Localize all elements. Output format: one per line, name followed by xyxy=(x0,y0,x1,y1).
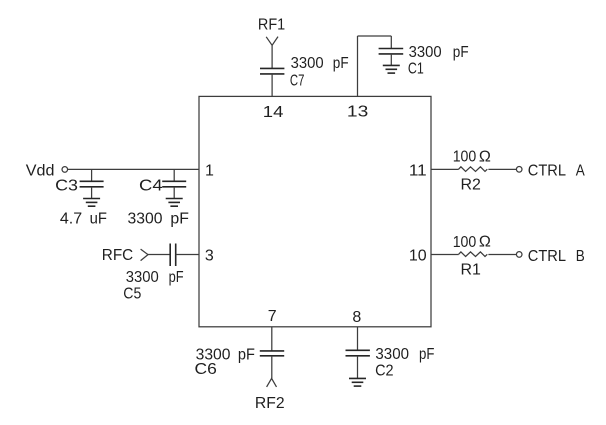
wire C5 to pin 3 xyxy=(176,254,199,256)
svg-text:pF: pF xyxy=(419,346,435,363)
port RF2 arrowhead xyxy=(267,378,277,387)
wire stub C3 xyxy=(91,169,93,181)
wire stub C4 xyxy=(173,169,175,181)
svg-text:Ω: Ω xyxy=(479,149,491,166)
value label 100 ohm (R1) xyxy=(453,234,491,251)
svg-text:C6: C6 xyxy=(195,361,217,378)
resistor R1 xyxy=(459,252,488,257)
value label 3300 pF (C5) xyxy=(126,269,184,286)
svg-text:100: 100 xyxy=(453,234,477,251)
wire pin 13 up xyxy=(357,36,359,96)
svg-text:RF2: RF2 xyxy=(255,395,285,412)
wire C3 to ground xyxy=(91,187,93,199)
IC U1 body xyxy=(199,96,431,326)
svg-text:pF: pF xyxy=(169,269,184,286)
ground (C3) xyxy=(83,199,100,207)
svg-text:CTRL: CTRL xyxy=(528,163,566,180)
svg-text:C1: C1 xyxy=(408,61,424,78)
wire RFC to C5 xyxy=(148,254,170,256)
capacitor C1 xyxy=(379,49,404,54)
wire horizontal to C1 xyxy=(358,35,392,37)
resistor R2 xyxy=(459,167,488,172)
svg-text:pF: pF xyxy=(453,44,469,61)
value label 4.7 uF (C3) xyxy=(60,211,107,228)
capacitor C4 xyxy=(162,181,186,187)
wire RF1 to C7 xyxy=(271,45,273,68)
svg-text:RF1: RF1 xyxy=(258,16,285,33)
wire C4 to ground xyxy=(173,187,175,199)
svg-text:3300: 3300 xyxy=(128,211,163,228)
ground (C2) xyxy=(349,378,366,386)
value label 3300 pF (C7) xyxy=(291,55,349,72)
wire C2 to ground xyxy=(357,356,359,379)
svg-text:4.7: 4.7 xyxy=(60,211,82,228)
svg-text:11: 11 xyxy=(409,163,427,180)
ground (C1) xyxy=(383,65,400,73)
svg-text:C4: C4 xyxy=(139,178,163,195)
svg-text:pF: pF xyxy=(333,55,349,72)
value label 100 ohm (R2) xyxy=(453,149,491,166)
value label 3300 pF (C6) xyxy=(196,346,256,363)
svg-text:R2: R2 xyxy=(461,176,482,193)
svg-text:Ω: Ω xyxy=(479,234,491,251)
wire pin 10 to R1 xyxy=(431,254,459,256)
terminal circle CTRL B xyxy=(516,252,522,258)
port RFC arrowhead xyxy=(141,249,148,261)
svg-text:C3: C3 xyxy=(55,178,78,195)
port RF1 arrowhead xyxy=(266,37,278,46)
svg-text:100: 100 xyxy=(453,149,477,166)
svg-text:8: 8 xyxy=(352,309,361,326)
value label 3300 pF (C2) xyxy=(375,346,434,363)
wire down to C1 xyxy=(390,36,392,49)
svg-text:pF: pF xyxy=(238,346,255,363)
capacitor C6 xyxy=(260,351,284,356)
svg-text:3300: 3300 xyxy=(375,346,409,363)
capacitor C5 xyxy=(170,244,176,267)
svg-text:C7: C7 xyxy=(290,73,305,90)
value label 3300 pF (C4) xyxy=(128,211,190,228)
wire R1 to terminal xyxy=(488,254,516,256)
node CTRL A xyxy=(528,163,585,180)
svg-text:Vdd: Vdd xyxy=(26,162,55,179)
ground (C4) xyxy=(166,199,183,207)
svg-text:1: 1 xyxy=(205,163,214,180)
wire C1 to ground xyxy=(390,54,392,66)
capacitor C7 xyxy=(260,68,284,74)
svg-text:C5: C5 xyxy=(123,286,141,303)
svg-text:14: 14 xyxy=(263,104,284,121)
capacitor C3 xyxy=(80,181,104,187)
svg-text:B: B xyxy=(576,248,585,265)
svg-text:3300: 3300 xyxy=(126,269,159,286)
svg-text:CTRL: CTRL xyxy=(528,248,566,265)
wire pin 8 to C2 xyxy=(357,327,359,351)
svg-text:10: 10 xyxy=(409,248,427,265)
svg-text:uF: uF xyxy=(90,211,108,228)
wire C6 to RF2 port xyxy=(271,356,273,379)
wire pin 11 to R2 xyxy=(431,168,459,170)
terminal circle Vdd xyxy=(62,167,68,173)
svg-text:7: 7 xyxy=(268,308,277,325)
svg-text:R1: R1 xyxy=(461,261,482,278)
svg-text:C2: C2 xyxy=(375,362,394,379)
wire Vdd to pin 1 xyxy=(68,168,199,170)
svg-text:RFC: RFC xyxy=(102,247,133,264)
svg-text:3300: 3300 xyxy=(409,44,442,61)
svg-text:13: 13 xyxy=(347,104,369,121)
svg-text:pF: pF xyxy=(170,211,189,228)
capacitor C2 xyxy=(346,350,370,356)
wire C7 to pin 14 xyxy=(271,74,273,97)
svg-text:3: 3 xyxy=(205,248,214,265)
svg-text:A: A xyxy=(576,163,585,180)
value label 3300 pF (C1) xyxy=(409,44,469,61)
wire R2 to terminal xyxy=(488,168,516,170)
svg-text:3300: 3300 xyxy=(291,55,324,72)
terminal circle CTRL A xyxy=(516,167,522,173)
wire pin 7 to C6 xyxy=(271,327,273,351)
node CTRL B xyxy=(528,248,585,265)
